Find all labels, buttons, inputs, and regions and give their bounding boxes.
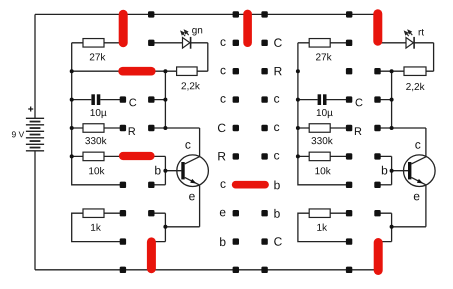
wire LED row left <box>151 43 208 71</box>
contact dots row 1 <box>148 40 352 46</box>
wire battery top lead <box>34 14 36 118</box>
wire emitter network left <box>151 185 199 242</box>
wire emitter network right <box>378 185 426 242</box>
jumper red top-left vertical <box>119 10 128 47</box>
resistor R3 330k <box>83 124 104 133</box>
wire base row stub right <box>378 184 392 186</box>
contact dots top rail <box>148 11 352 17</box>
wire capacitor row left <box>72 99 166 101</box>
contact dots row 8 <box>120 238 353 244</box>
capacitor C1 10u <box>91 94 95 105</box>
resistor R7 2,2k right <box>404 67 426 76</box>
resistor R9 10k <box>309 152 330 161</box>
wire base lead left <box>165 170 181 172</box>
transistor Q1 <box>177 155 209 187</box>
resistor R2 2,2k left <box>177 67 198 76</box>
wire 330k row right <box>298 127 392 129</box>
contact dots row 3 <box>120 96 381 102</box>
battery plus sign <box>28 107 33 112</box>
wire bottom rail <box>35 269 378 271</box>
wire top rail <box>35 13 378 15</box>
resistor R4 10k <box>83 152 104 161</box>
node C right <box>356 99 363 107</box>
junction dots left riser <box>163 69 167 229</box>
wire 27k row left <box>72 42 123 44</box>
resistor R8 330k <box>309 124 330 133</box>
jumper red bottom-left vertical <box>147 237 156 273</box>
node R left <box>129 127 136 135</box>
wire capacitor row right <box>298 99 392 101</box>
jumper red 2.2k-row horizontal <box>118 67 155 76</box>
wire 27k row right <box>298 42 349 44</box>
transistor Q2 <box>404 155 436 187</box>
contact dots bottom rail <box>120 267 353 273</box>
resistor R1 27k <box>83 39 104 48</box>
wire base row stub left <box>151 184 165 186</box>
pin e label Q1 <box>189 194 195 201</box>
jumper red top-middle vertical <box>243 10 252 47</box>
contact dots row 7 <box>120 210 381 216</box>
wire 2.2k row right <box>378 70 434 72</box>
junction dots right riser <box>390 69 394 229</box>
junction dots right rail <box>296 69 300 158</box>
pin e label Q2 <box>414 194 420 201</box>
wire left rail <box>72 43 123 185</box>
node R right <box>355 127 362 135</box>
junction dots left rail <box>70 69 74 158</box>
wire 10k row right <box>298 156 392 184</box>
pin c label Q1 <box>185 142 190 149</box>
wire 2.2k row left <box>72 70 208 72</box>
socket letters left column <box>218 39 226 246</box>
contact dots row 4 <box>120 125 381 131</box>
battery BT1 9V <box>26 118 44 151</box>
wire base lead right <box>392 170 409 172</box>
wire collector riser right <box>392 71 426 156</box>
wire 1k loop left <box>72 213 123 241</box>
pin c label Q2 <box>415 142 420 149</box>
node C left <box>129 99 136 107</box>
wire collector riser left <box>165 71 199 156</box>
battery value 9 V <box>12 131 24 137</box>
contact dots row 2 <box>233 68 381 74</box>
resistor R5 1k <box>83 209 104 218</box>
wire right rail <box>298 43 349 185</box>
jumper red top-right vertical <box>373 9 382 45</box>
wire LED row right <box>378 43 434 71</box>
jumper red middle horizontal <box>232 181 269 189</box>
wire 10k row left <box>72 156 166 184</box>
wire 330k row left <box>72 127 166 129</box>
contact dots row 5 <box>233 153 381 159</box>
contact dots row 6 <box>120 182 381 188</box>
jumper red 10k-row horizontal <box>119 152 155 160</box>
socket letters right column <box>274 38 282 245</box>
LED D1 gn <box>183 38 190 49</box>
capacitor C2 10u <box>318 94 322 105</box>
LED D2 rt <box>406 38 413 49</box>
pin b label Q1 <box>155 166 160 175</box>
pin b label Q2 <box>382 166 387 175</box>
resistor R6 27k <box>309 39 330 48</box>
jumper red bottom-right vertical <box>374 238 383 275</box>
wire battery bottom lead <box>34 151 36 270</box>
wire 1k loop right <box>298 213 349 241</box>
resistor R10 1k <box>309 209 330 218</box>
